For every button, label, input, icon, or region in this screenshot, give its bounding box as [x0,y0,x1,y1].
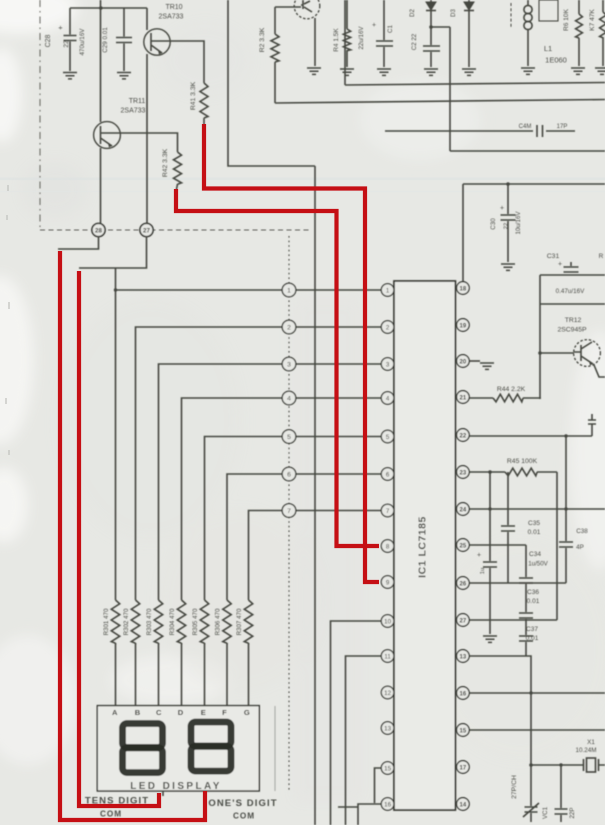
capacitor C35 0.01 [501,472,541,583]
resistor R6 10K [563,0,582,66]
wire TR10 emitter to R41 [169,41,204,83]
svg-text:X1: X1 [587,739,595,746]
capacitor C31 [547,253,585,295]
svg-text:17P: 17P [557,124,568,130]
wire pin26 [469,582,566,584]
svg-text:17: 17 [460,765,467,771]
pin 25 (right) [457,539,470,552]
svg-text:7: 7 [386,508,390,515]
svg-text:23: 23 [460,470,467,476]
pin 18 (right) [457,282,470,295]
svg-text:1: 1 [287,287,291,294]
wire top rail [70,7,147,9]
svg-text:C35: C35 [528,520,540,527]
svg-text:+: + [372,22,376,29]
svg-text:10u/16V: 10u/16V [515,211,522,235]
wire node 1 branch [115,268,117,600]
junction [99,6,103,10]
svg-text:+: + [558,261,562,268]
svg-text:8: 8 [386,543,390,550]
svg-text:TR11: TR11 [129,98,146,105]
pin 7 (left) [381,504,394,517]
svg-text:13: 13 [460,654,467,660]
ground (emitter) [307,68,321,74]
wire supply rail right [463,184,605,282]
svg-text:C2 22: C2 22 [411,33,418,50]
pin 14 (right) [457,798,470,811]
resistor R303 470 [146,600,163,643]
pin 8 (left) [381,540,394,553]
resistor R41 3.3K [190,81,208,118]
pin 26 (right) [457,577,470,590]
resistor R2 3.3K with leads [259,7,279,103]
pin 12 (left) [381,686,394,699]
wire node 4 branch [182,398,283,600]
svg-text:26: 26 [460,581,467,587]
svg-text:R306 470: R306 470 [215,608,222,635]
svg-text:TR10: TR10 [165,4,182,11]
wire long vertical [314,166,316,825]
svg-text:2SA733: 2SA733 [121,108,146,115]
node 2 [282,320,296,334]
wire transistor emitter [314,18,316,66]
pin 6 (left) [381,468,394,481]
pin 21 (right) [457,391,470,404]
svg-text:C4M: C4M [519,124,532,130]
wire pin25 [469,544,526,546]
stub component right [588,414,596,436]
wire pin27 [469,619,557,621]
node 3 [282,357,296,371]
svg-text:R307 470: R307 470 [236,608,243,635]
wire to display [226,643,228,706]
wire pin13r corner [469,656,531,765]
svg-text:20: 20 [460,359,467,365]
pin 17 (right) [457,761,470,774]
svg-text:14: 14 [460,802,467,808]
diode D3 [450,0,474,67]
wire pin 11 [346,656,382,825]
svg-text:C31: C31 [547,253,560,260]
pin 15 (right) [457,724,470,737]
pin 13 (left) [381,722,394,735]
svg-text:C30: C30 [490,218,497,230]
svg-text:1u/50V: 1u/50V [528,561,548,568]
capacitor C38 4P [559,436,588,583]
capacitor VC1 trimmer [523,765,549,822]
wire node 7 to pin [296,510,382,512]
svg-text:R44 2.2K: R44 2.2K [497,386,526,393]
svg-text:13: 13 [384,725,391,732]
wire transistor base [275,6,301,8]
ground (C28) [63,73,77,79]
pin 1 (left) [381,284,394,297]
svg-text:R301 470: R301 470 [103,608,110,635]
svg-text:R305 470: R305 470 [192,608,199,635]
svg-text:1E060: 1E060 [545,56,567,65]
svg-text:0.01: 0.01 [528,529,541,536]
resistor R304 470 [169,600,186,643]
svg-text:D2: D2 [409,8,416,16]
svg-text:27: 27 [143,227,150,234]
svg-text:D3: D3 [450,8,457,16]
node 1 [282,283,296,297]
svg-text:LED DISPLAY: LED DISPLAY [130,781,222,792]
IC IC1 LC7185 [394,281,455,810]
wire connector 27 to red [79,237,147,269]
ground (L1) [521,68,535,74]
wire long horizontal upper [275,100,605,104]
wire under IC [338,806,358,808]
svg-text:22u/16V: 22u/16V [358,26,365,50]
capacitor C34 1u/50V [519,545,549,612]
wire TR11 rail vertical [100,0,102,223]
svg-text:ONE'S DIGIT: ONE'S DIGIT [208,798,277,809]
svg-text:R2 3.3K: R2 3.3K [259,27,266,52]
svg-text:21: 21 [460,395,467,401]
pin 9 (left) [381,576,394,589]
svg-text:C34: C34 [529,551,541,558]
wire pin22 long [469,435,592,437]
wire R45 branch down [556,472,558,620]
svg-text:10: 10 [384,618,391,625]
pin 15 (left) [381,762,394,775]
wire to display [115,643,117,706]
wire TR11 base to R42 [120,133,178,152]
resistor R301 470 [103,600,120,643]
wire node 5 branch [205,437,283,601]
svg-text:+: + [500,205,504,212]
transistor top (cut) [294,0,320,19]
pin 11 (left) [381,650,394,663]
svg-text:C1: C1 [387,24,394,32]
resistor R305 470 [192,600,209,643]
svg-text:9: 9 [386,579,390,586]
svg-text:2: 2 [287,324,291,331]
ground (C33) [483,636,497,642]
resistor K7 47K [589,0,605,66]
svg-text:C: C [156,708,162,717]
svg-text:11: 11 [384,653,391,660]
svg-text:R304 470: R304 470 [169,608,176,635]
transistor TR10 [144,4,184,55]
svg-text:E: E [201,708,206,717]
svg-text:C29 0.01: C29 0.01 [102,27,109,53]
ground (C2) [424,69,438,75]
svg-text:R41 3.3K: R41 3.3K [190,81,197,110]
capacitor C37 0.01 [519,620,539,656]
svg-text:4P: 4P [576,544,584,551]
svg-text:TR12: TR12 [565,317,582,324]
svg-text:R4 1.5K: R4 1.5K [333,28,340,52]
pin 23 (right) [457,466,470,479]
transistor TR12 [557,317,605,377]
svg-text:C38: C38 [576,528,588,535]
wire pin16r long [469,692,605,694]
wire pin15r long [469,729,605,731]
wire faint right of display [274,706,276,791]
enclosure component box [345,0,605,85]
pin 10 (left) [381,615,394,628]
capacitor 22P [555,765,577,822]
svg-text:R42 3.3K: R42 3.3K [162,148,169,177]
svg-text:G: G [244,708,250,717]
inductor L1 1E060 [511,0,567,66]
enclosure border top-left box [228,0,315,166]
svg-text:K7 47K: K7 47K [589,9,596,31]
diode D2 [409,0,436,17]
svg-text:22P: 22P [569,807,576,818]
svg-text:27P/CH: 27P/CH [511,775,518,799]
svg-text:A: A [112,708,118,717]
svg-text:12: 12 [384,690,391,697]
junction (C30 top) [506,182,510,186]
svg-text:0.01: 0.01 [527,598,540,605]
svg-text:+: + [477,552,481,559]
svg-text:18: 18 [460,286,467,292]
wire pin 16 [358,804,382,825]
seven-segment digit (ones) [191,722,231,771]
pin 16 (left) [381,798,394,811]
svg-text:6: 6 [287,471,291,478]
pin 24 (right) [457,503,470,516]
svg-text:L1: L1 [544,44,552,53]
wire branch to lower rail [450,27,605,151]
resistor R44 2.2K [469,386,540,402]
svg-text:28: 28 [95,227,102,234]
wire pin20 to ground [469,360,480,362]
wire TR12 base [540,352,574,354]
wire node 2 to pin [296,326,382,328]
wire node 7 branch [249,511,283,601]
wire R42 to red trace [176,184,178,192]
pin 20 (right) [457,355,470,368]
junction D2/C2 node [429,25,433,29]
svg-text:5: 5 [287,434,291,441]
svg-text:R45 100K: R45 100K [507,458,538,465]
connector 27 [140,223,153,236]
resistor R45 100K [469,458,557,476]
capacitor C4 17P [385,124,575,137]
svg-text:27: 27 [460,618,467,624]
svg-text:16: 16 [460,691,467,697]
wire to display [135,643,137,706]
resistor R4 1.5K [333,0,351,67]
svg-text:5: 5 [386,434,390,441]
svg-text:B: B [135,708,141,717]
svg-text:15: 15 [384,765,391,772]
svg-text:R303 470: R303 470 [146,608,153,635]
wire connector 28 to red [58,237,99,250]
svg-text:R6 10K: R6 10K [563,8,570,31]
wire node 2 branch [136,327,283,600]
dashed bus line [40,229,310,231]
svg-text:+: + [58,23,63,32]
capacitor C1 [358,0,394,67]
wire node 6 branch [227,474,283,600]
svg-text:15: 15 [460,728,467,734]
wire pin24 long [469,508,605,510]
svg-text:470u/16V: 470u/16V [79,28,86,56]
wire crystal row [531,764,583,766]
ground (R6) [571,68,585,74]
enclosure C31 box [540,275,605,399]
wire node 3 to pin [296,363,382,365]
svg-text:IC1 LC7185: IC1 LC7185 [417,516,429,578]
capacitor C2 [411,11,440,68]
seven-segment digit (tens) [123,724,163,773]
wire node 5 to pin [296,436,382,438]
svg-text:10.24M: 10.24M [575,747,596,754]
svg-text:D: D [178,708,184,717]
crystal X1 10.24M [575,739,605,772]
red wire R42 to pin 8 [176,189,379,546]
pin 16 (right) [457,687,470,700]
ground (C30) [501,264,515,270]
svg-text:16: 16 [384,801,391,808]
svg-text:3: 3 [287,361,291,368]
pin 13 (right) [457,650,470,663]
LED display module [97,706,259,791]
svg-text:0.01: 0.01 [526,635,539,642]
node 4 [282,391,296,405]
wire pin 15 jog [375,768,382,803]
wire to display [204,643,206,706]
svg-text:F: F [222,708,227,717]
wire R41 to red trace [203,118,205,126]
svg-text:1: 1 [386,287,390,294]
pin 27 (right) [457,614,470,627]
svg-text:0.47u/16V: 0.47u/16V [556,288,586,295]
svg-text:3: 3 [386,361,390,368]
svg-text:COM: COM [100,810,122,819]
ground (C29) [117,73,131,79]
node 6 [282,467,296,481]
pin 5 (left) [381,430,394,443]
node 5 [282,430,296,444]
pin 19 (right) [457,319,470,332]
pin 3 (left) [381,358,394,371]
red wire R41 to pin 9 [204,124,379,582]
ground (R4) [340,69,354,75]
red wire connector 27 to tens common [79,271,159,806]
svg-text:19: 19 [460,323,467,329]
connector 28 [92,223,105,236]
node 7 [282,504,296,518]
resistor R307 470 [236,600,253,643]
capacitor C30 [490,184,522,262]
svg-text:1u: 1u [480,568,486,574]
svg-text:24: 24 [460,507,467,513]
ground (D3) [462,69,476,75]
svg-text:C28: C28 [45,34,52,47]
svg-text:2SA733: 2SA733 [159,14,184,21]
svg-text:22: 22 [460,433,467,439]
wire TR10 collector down to connector 27 [146,54,148,223]
wire pin 10 [331,621,382,825]
ground (K7) [595,68,605,74]
wire to display [248,643,250,706]
capacitor C36 0.01 [519,589,540,620]
segment letters A-G [112,708,250,717]
dash-dot left boundary [39,0,41,231]
resistor R42 3.3K [162,148,182,184]
ground (pin20) [480,363,494,369]
wire node 4 to pin [296,397,382,399]
ground (C1) [377,69,391,75]
svg-text:4: 4 [386,395,390,402]
transistor TR11 [94,98,146,148]
svg-text:R: R [599,253,604,260]
resistor R302 470 [123,600,140,643]
svg-text:2: 2 [386,324,390,331]
svg-text:2SC945P: 2SC945P [557,327,587,334]
svg-text:COM: COM [233,812,255,821]
svg-text:VC1: VC1 [542,806,549,819]
svg-text:22: 22 [63,40,70,48]
svg-text:4: 4 [287,395,291,402]
capacitor C29 [102,8,132,71]
dashed net line vertical [288,236,290,790]
svg-text:C36: C36 [527,589,539,596]
wire to display [158,643,160,706]
svg-text:25: 25 [460,543,467,549]
svg-text:7: 7 [287,508,291,515]
svg-text:C37: C37 [526,626,538,633]
pin 4 (left) [381,392,394,405]
svg-text:R302 470: R302 470 [123,608,130,635]
resistor R306 470 [215,600,232,643]
wire D2 node to branch [431,26,450,28]
wire node 3 branch [159,364,283,600]
svg-text:22: 22 [504,223,510,229]
pin 2 (left) [381,321,394,334]
wire node 1 to pin [296,289,382,291]
wire to display [181,643,183,706]
capacitor C33 electrolytic [477,472,497,634]
wire node 6 to pin [296,473,382,475]
wire display common stub [162,791,164,796]
red wire connector 28 to ones common [60,251,205,820]
capacitor C28 [45,8,86,71]
svg-text:6: 6 [386,471,390,478]
pin 22 (right) [457,429,470,442]
